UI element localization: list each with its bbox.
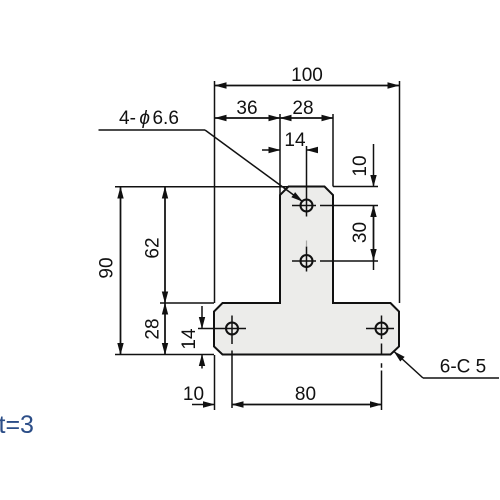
dim line 90 left [120,187,122,355]
svg-text:36: 36 [236,98,257,119]
plate outline T-shape [214,187,399,355]
extension line right edge top [399,81,401,303]
hole H3 center cross [198,316,246,345]
extension line stem left [279,114,281,195]
svg-text:28: 28 [292,98,313,119]
svg-text:28: 28 [143,318,164,339]
dim line 100 [215,85,399,87]
center line dashes below hole H3 [231,351,233,409]
extension line stem right [332,114,334,187]
extension line left edge top [214,81,216,303]
svg-text:80: 80 [295,384,316,405]
hole H1 center cross [292,146,316,217]
extension line stem top rightward [333,186,378,188]
svg-text:90: 90 [97,257,118,278]
hole H4 bottom-right [376,323,388,335]
svg-text:14: 14 [179,328,200,350]
extension line hole H2 rightward [320,260,378,262]
extension line top edge leftward [115,186,288,188]
hole H2 stem [301,255,313,267]
leader 4-phi6.6 [99,129,206,131]
dim line 80 bottom [232,404,382,406]
center line dash above H2 [306,241,308,247]
leader 6-C5 [394,352,423,379]
extension line bottom edge leftward [115,354,214,356]
svg-text:30: 30 [350,222,371,243]
dim line 30 tail [373,261,375,271]
dim line 62 left [164,187,166,303]
dim line 14 left lower tail [201,355,203,369]
hole H3 bottom-left [226,323,238,335]
dim line 28 top [280,117,333,119]
dim line 10 right tail [373,144,375,187]
dim line 28 left [164,303,166,355]
dim line 10 bottom tail [192,404,215,406]
hole H1 top stem [301,200,313,212]
extension line bar top leftward [160,302,214,304]
svg-text:t=3: t=3 [0,411,34,439]
dim line 36 [215,117,280,119]
dim line 14 top right tail [307,149,319,151]
dim line 30 right [373,206,375,261]
extension line hole H1 rightward [320,205,378,207]
dim line 14 left upper tail [201,306,203,329]
svg-text:14: 14 [284,130,306,151]
svg-text:4-ϕ6.6: 4-ϕ6.6 [119,108,179,129]
center line dashes below hole H4 [381,344,383,411]
svg-text:10: 10 [183,384,204,405]
hole H2 center cross [292,247,316,272]
dim line 14 top left tail [262,149,280,151]
extension line left edge bottom [214,355,216,410]
svg-text:10: 10 [350,155,371,176]
svg-text:100: 100 [291,65,323,86]
svg-text:62: 62 [143,237,164,258]
hole H4 center cross [366,316,394,340]
svg-text:6-C 5: 6-C 5 [440,357,486,378]
